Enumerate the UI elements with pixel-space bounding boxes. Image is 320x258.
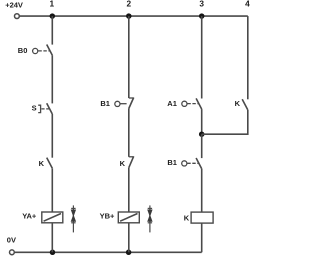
wire branch1 B0 to S — [51, 55, 53, 103]
wire branch1 S to K — [51, 114, 53, 158]
terminal 0V — [10, 250, 15, 255]
coil YA+ (valve solenoid) — [42, 212, 63, 223]
svg-text:B0: B0 — [18, 46, 28, 55]
sensor bubble B1 rung3 — [182, 161, 187, 166]
wire branch3 relay to bottom rail — [201, 223, 203, 252]
svg-text:B1: B1 — [167, 158, 177, 167]
svg-text:K: K — [39, 159, 45, 168]
wire branch4 rail to K — [247, 16, 249, 99]
wire branch1 rail to B0 — [51, 16, 53, 44]
junction bottom-branch 2 — [126, 250, 132, 256]
wire branch2 B1 to K — [128, 109, 130, 157]
contact B1 (NC, rung 2) — [121, 98, 134, 109]
svg-text:2: 2 — [126, 0, 131, 9]
sensor bubble A1 — [182, 101, 187, 106]
svg-text:+24V: +24V — [5, 1, 23, 10]
wire top supply rail — [20, 15, 248, 17]
svg-text:YA+: YA+ — [22, 211, 37, 220]
sensor bubble B0 — [33, 48, 38, 53]
contact K (NO, rung 1) — [47, 158, 53, 169]
solenoid link symbol YA+ — [71, 205, 76, 232]
svg-text:K: K — [120, 159, 126, 168]
contact S (NO pushbutton, detent) — [38, 103, 52, 114]
svg-text:S: S — [32, 103, 37, 112]
wire branch1 K to coil YA+ — [51, 168, 53, 212]
contact B0 (NO) — [38, 45, 52, 56]
svg-text:A1: A1 — [167, 99, 177, 108]
junction rail-branch 2 — [126, 13, 132, 19]
junction bottom-branch 1 — [50, 250, 56, 256]
terminal +24V — [15, 14, 20, 19]
contact K (NO, self-hold) — [242, 99, 248, 110]
junction branch3-branch4 — [199, 131, 205, 137]
wire branch3 rail to A1 — [201, 16, 203, 98]
solenoid link symbol YB+ — [147, 205, 152, 232]
svg-text:YB+: YB+ — [100, 211, 115, 220]
sensor bubble B1 rung2 — [115, 101, 120, 106]
wire branch2 K to coil YB+ — [128, 168, 130, 212]
junction rail-branch 3 — [199, 13, 205, 19]
coil YB+ (valve solenoid) — [118, 212, 139, 223]
wire branch1 coil to bottom rail — [51, 223, 53, 253]
svg-text:B1: B1 — [100, 99, 110, 108]
contact B1 (NO, rung 3) — [187, 158, 201, 169]
wire branch4 K down and left to junction — [202, 110, 248, 134]
svg-text:4: 4 — [245, 0, 250, 9]
junction rail-branch 1 — [50, 13, 56, 19]
contact A1 (NO, rung 3) — [187, 98, 201, 109]
svg-text:0V: 0V — [7, 236, 16, 245]
svg-text:K: K — [235, 99, 241, 108]
wire branch2 coil to bottom rail — [128, 223, 130, 253]
svg-text:K: K — [184, 213, 190, 222]
wire branch3 A1 to junction — [201, 109, 203, 134]
svg-text:3: 3 — [199, 0, 204, 9]
wire branch3 junction to B1 — [201, 134, 203, 158]
contact K (NC, rung 2) — [129, 156, 134, 167]
wire bottom return rail — [15, 251, 202, 253]
svg-text:1: 1 — [49, 0, 54, 9]
wire branch2 rail to B1 — [128, 16, 130, 98]
wire branch3 B1 to relay K — [201, 169, 203, 212]
relay coil K — [191, 212, 213, 223]
